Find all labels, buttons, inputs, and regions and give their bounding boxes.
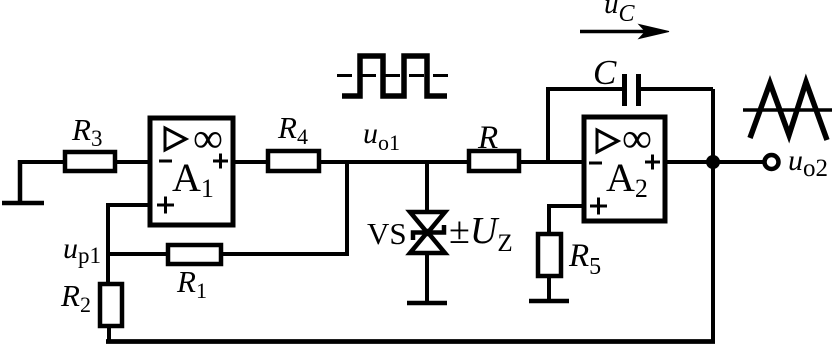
wire: R3 to A1 inverting input	[115, 160, 150, 164]
waveform: square wave symbol	[337, 56, 452, 96]
wire: left ground stub to R3	[20, 160, 64, 164]
svg-text:up1: up1	[63, 232, 101, 268]
wire: up1 down to R2	[106, 254, 110, 284]
svg-text:R4: R4	[277, 110, 308, 149]
resistor R5	[538, 234, 561, 276]
diode VS bidirectional zener	[410, 212, 445, 253]
svg-text:uC: uC	[604, 0, 636, 27]
wire: junction vertical down to bottom rail	[711, 89, 715, 342]
resistor R	[469, 151, 519, 171]
svg-text:±UZ: ±UZ	[449, 210, 513, 257]
wire: uo1 node down to VS	[425, 162, 429, 213]
wire: A1 output to R4	[233, 160, 268, 164]
wire: feedback from uo1 line down and left to R1	[221, 162, 347, 254]
svg-text:VS: VS	[367, 216, 407, 251]
wire: R4 to R through node uo1	[319, 160, 469, 164]
ground: under VS	[407, 301, 447, 306]
resistor R4	[268, 151, 319, 171]
op-amp A1	[150, 116, 233, 225]
wire: VS to ground	[425, 253, 429, 303]
arrow: uC direction	[580, 25, 669, 39]
waveform: triangle wave symbol	[743, 82, 832, 140]
wire: A2 noninverting input stub to R5	[549, 206, 584, 234]
wire: capacitor right plate to output vertical	[641, 87, 713, 91]
wire: bottom feedback rail	[106, 339, 715, 344]
svg-text:R: R	[477, 120, 498, 156]
wire: R5 to ground	[547, 276, 551, 300]
wire: capacitor branch up from main line	[548, 89, 622, 162]
resistor R2	[100, 284, 122, 326]
capacitor C	[625, 74, 639, 106]
wire: junction to output terminal	[713, 160, 763, 164]
resistor R3	[65, 152, 115, 171]
ground: under R5	[529, 299, 569, 304]
resistor R1	[168, 245, 221, 264]
wire: A2 output to junction	[665, 160, 713, 164]
wire: R to A2 inverting input	[519, 160, 584, 164]
svg-text:uo2: uo2	[788, 144, 828, 182]
wire: R1 to node up1	[108, 252, 168, 256]
node: output junction dot	[706, 155, 720, 169]
wire: A1 noninverting input stub down to up1	[108, 205, 150, 254]
svg-text:R2: R2	[60, 278, 91, 317]
wire: R2 to bottom rail	[107, 326, 111, 342]
svg-text:R5: R5	[568, 238, 601, 280]
svg-text:R1: R1	[176, 264, 207, 303]
svg-text:C: C	[593, 53, 617, 92]
svg-text:uo1: uo1	[363, 117, 400, 155]
terminal uo2	[765, 155, 779, 169]
op-amp A2	[584, 116, 665, 221]
svg-text:R3: R3	[71, 112, 102, 151]
ground: left input ground	[2, 160, 44, 203]
